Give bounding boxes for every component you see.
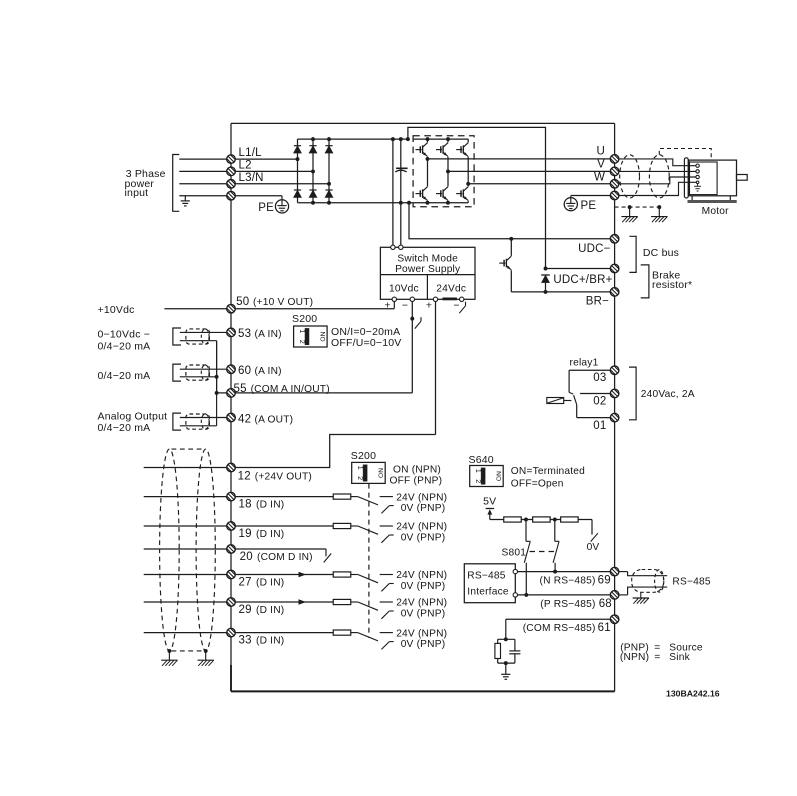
- svg-text:19: 19: [239, 528, 252, 540]
- svg-text:Interface: Interface: [467, 587, 509, 598]
- svg-text:RS−485: RS−485: [672, 576, 710, 587]
- svg-text:240Vac, 2A: 240Vac, 2A: [641, 389, 695, 400]
- svg-text:input: input: [125, 187, 149, 199]
- svg-text:(D IN): (D IN): [256, 529, 284, 540]
- svg-text:L1/L: L1/L: [239, 147, 263, 159]
- svg-text:S200: S200: [292, 313, 317, 325]
- svg-text:Switch Mode: Switch Mode: [397, 254, 458, 265]
- svg-text:(COM RS−485): (COM RS−485): [523, 623, 596, 634]
- svg-text:(N RS−485): (N RS−485): [540, 576, 596, 587]
- svg-text:(D IN): (D IN): [256, 636, 284, 647]
- svg-text:S200: S200: [351, 450, 376, 462]
- svg-text:=: =: [654, 652, 660, 663]
- svg-text:(A IN): (A IN): [255, 366, 282, 377]
- svg-text:ON=Terminated: ON=Terminated: [511, 466, 585, 477]
- svg-text:68: 68: [599, 598, 612, 610]
- svg-text:(NPN): (NPN): [620, 652, 649, 663]
- svg-text:03: 03: [593, 372, 606, 384]
- svg-text:ON (NPN): ON (NPN): [393, 464, 441, 475]
- svg-text:(COM A IN/OUT): (COM A IN/OUT): [251, 384, 330, 395]
- svg-text:5V: 5V: [483, 496, 496, 508]
- svg-text:resistor*: resistor*: [652, 279, 692, 291]
- svg-text:2: 2: [474, 479, 481, 483]
- svg-text:+: +: [426, 299, 432, 311]
- svg-text:60: 60: [238, 365, 251, 377]
- svg-text:(D IN): (D IN): [256, 605, 284, 616]
- svg-text:0/4−20 mA: 0/4−20 mA: [98, 370, 151, 382]
- svg-text:(A OUT): (A OUT): [255, 414, 294, 425]
- svg-text:(D IN): (D IN): [256, 578, 284, 589]
- svg-text:(+10 V OUT): (+10 V OUT): [253, 297, 313, 308]
- svg-text:20: 20: [240, 551, 253, 563]
- svg-text:RS−485: RS−485: [467, 571, 505, 582]
- svg-text:UDC+/BR+: UDC+/BR+: [553, 274, 612, 286]
- svg-text:130BA242.16: 130BA242.16: [666, 689, 720, 699]
- svg-text:0V: 0V: [587, 542, 600, 553]
- svg-text:0/4−20 mA: 0/4−20 mA: [98, 340, 151, 352]
- svg-text:UDC−: UDC−: [578, 243, 611, 255]
- svg-text:Sink: Sink: [669, 652, 690, 663]
- svg-text:42: 42: [238, 413, 251, 425]
- svg-text:02: 02: [593, 396, 606, 408]
- svg-text:24Vdc: 24Vdc: [436, 284, 466, 295]
- svg-text:ON: ON: [320, 331, 327, 341]
- svg-text:(P RS−485): (P RS−485): [540, 599, 595, 610]
- svg-text:10Vdc: 10Vdc: [389, 284, 419, 295]
- svg-text:24V (NPN): 24V (NPN): [396, 570, 447, 581]
- svg-text:S640: S640: [469, 454, 494, 466]
- svg-text:33: 33: [239, 635, 252, 647]
- svg-text:relay1: relay1: [570, 357, 599, 368]
- svg-text:DC bus: DC bus: [643, 247, 679, 259]
- svg-text:(A IN): (A IN): [255, 329, 282, 340]
- svg-text:24V (NPN): 24V (NPN): [396, 522, 447, 533]
- svg-text:V: V: [597, 158, 605, 170]
- svg-text:1: 1: [474, 469, 481, 473]
- svg-text:+10Vdc: +10Vdc: [98, 304, 135, 316]
- svg-text:−: −: [402, 299, 408, 311]
- svg-text:50: 50: [236, 296, 249, 308]
- svg-text:27: 27: [239, 577, 252, 589]
- svg-text:2: 2: [356, 476, 363, 480]
- svg-text:OFF (PNP): OFF (PNP): [390, 475, 443, 486]
- svg-text:(D IN): (D IN): [256, 500, 284, 511]
- svg-text:0−10Vdc −: 0−10Vdc −: [98, 329, 151, 341]
- svg-text:0V (PNP): 0V (PNP): [401, 503, 446, 514]
- svg-text:12: 12: [238, 470, 251, 482]
- svg-text:OFF=Open: OFF=Open: [511, 478, 564, 489]
- svg-text:(COM D IN): (COM D IN): [257, 552, 313, 563]
- svg-text:24V (NPN): 24V (NPN): [396, 598, 447, 609]
- svg-text:ON: ON: [378, 468, 385, 478]
- svg-text:0V (PNP): 0V (PNP): [401, 609, 446, 620]
- svg-text:53: 53: [238, 328, 251, 340]
- svg-text:BR−: BR−: [586, 295, 609, 307]
- svg-text:0V (PNP): 0V (PNP): [401, 533, 446, 544]
- svg-text:L2: L2: [239, 160, 252, 172]
- svg-text:U: U: [596, 146, 605, 158]
- svg-text:+: +: [384, 299, 390, 311]
- svg-text:01: 01: [593, 420, 606, 432]
- svg-text:0/4−20 mA: 0/4−20 mA: [98, 422, 151, 434]
- svg-text:1: 1: [298, 329, 305, 333]
- svg-text:OFF/U=0−10V: OFF/U=0−10V: [331, 337, 401, 349]
- svg-text:0V (PNP): 0V (PNP): [401, 639, 446, 650]
- svg-text:69: 69: [598, 575, 611, 587]
- svg-text:(+24V OUT): (+24V OUT): [255, 471, 312, 482]
- svg-text:PE: PE: [581, 200, 597, 212]
- svg-text:Analog Output: Analog Output: [98, 410, 168, 422]
- svg-text:24V (NPN): 24V (NPN): [396, 628, 447, 639]
- svg-text:Motor: Motor: [702, 206, 729, 217]
- svg-text:ON: ON: [496, 471, 503, 481]
- svg-text:24V (NPN): 24V (NPN): [396, 492, 447, 503]
- svg-text:L3/N: L3/N: [239, 172, 264, 184]
- svg-text:18: 18: [239, 499, 252, 511]
- svg-text:29: 29: [239, 604, 252, 616]
- svg-text:Power Supply: Power Supply: [395, 264, 461, 275]
- svg-text:1: 1: [356, 466, 363, 470]
- svg-text:PE: PE: [258, 202, 274, 214]
- svg-text:61: 61: [598, 622, 611, 634]
- svg-text:S801: S801: [502, 547, 527, 558]
- svg-text:0V (PNP): 0V (PNP): [401, 581, 446, 592]
- svg-text:2: 2: [298, 340, 305, 344]
- svg-text:W: W: [594, 172, 605, 184]
- svg-text:−: −: [453, 299, 459, 311]
